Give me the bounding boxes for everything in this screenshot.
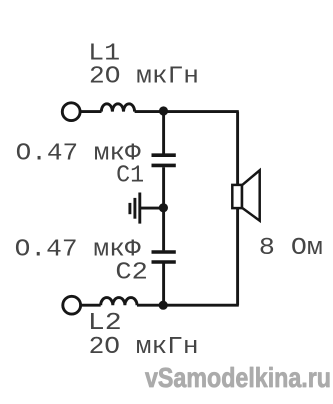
svg-text:vSamodelkina.ru: vSamodelkina.ru xyxy=(145,362,331,393)
svg-text:2O мкГн: 2O мкГн xyxy=(89,334,199,361)
svg-text:C1: C1 xyxy=(116,163,144,190)
svg-text:8 Ом: 8 Ом xyxy=(259,235,323,262)
svg-text:C2: C2 xyxy=(115,260,147,287)
svg-text:L2: L2 xyxy=(88,310,122,337)
svg-text:2O мкГн: 2O мкГн xyxy=(89,63,199,90)
